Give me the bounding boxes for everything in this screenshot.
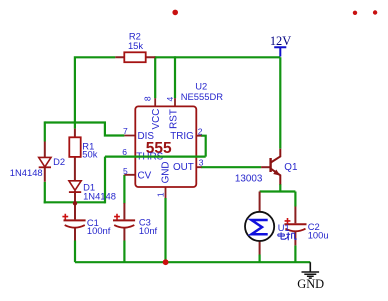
wire 12V to collector <box>279 57 281 148</box>
junction dot pin1/rail <box>163 259 169 265</box>
wire 12V rail <box>155 56 280 58</box>
svg-text:DIS: DIS <box>138 131 155 142</box>
wire bottom ground rail <box>75 261 310 263</box>
svg-text:100u: 100u <box>308 230 329 241</box>
stray dot C <box>373 10 377 14</box>
svg-text:U1: U1 <box>278 222 290 233</box>
svg-text:OUT: OUT <box>173 162 194 173</box>
capacitor C1 <box>62 202 110 240</box>
wire DIS net horizontal <box>45 123 125 136</box>
diode D2 <box>10 142 65 182</box>
wire C2 bottom <box>294 245 296 262</box>
svg-text:D2: D2 <box>53 156 65 167</box>
wire D2 bottom <box>44 182 46 204</box>
wire D2 top <box>44 121 46 141</box>
capacitor C3 <box>113 203 158 241</box>
svg-text:Q1: Q1 <box>284 162 298 173</box>
svg-text:VCC: VCC <box>151 109 162 130</box>
wire C3 bottom <box>123 241 125 263</box>
wire THRS drop <box>104 157 106 204</box>
wire C1 bottom <box>74 241 76 263</box>
diode D1 <box>69 181 116 203</box>
svg-text:3: 3 <box>199 158 204 168</box>
svg-text:8: 8 <box>142 96 152 101</box>
svg-text:15k: 15k <box>128 40 143 51</box>
capacitor C2 <box>284 207 328 246</box>
transistor Q1 <box>235 149 298 185</box>
wire pin4 drop <box>174 56 176 98</box>
power port GND <box>297 262 324 291</box>
resistor R1 <box>69 129 97 181</box>
stray dot B <box>353 11 357 15</box>
wire emitter down <box>279 184 281 192</box>
svg-text:CV: CV <box>138 171 152 182</box>
power port 12V <box>270 34 291 57</box>
svg-text:5: 5 <box>123 166 128 176</box>
svg-text:4: 4 <box>165 96 175 101</box>
svg-text:GND: GND <box>161 161 172 183</box>
wire motor bottom <box>259 255 261 263</box>
svg-text:7: 7 <box>123 126 128 136</box>
svg-text:12V: 12V <box>270 34 291 48</box>
svg-text:10nf: 10nf <box>139 225 158 236</box>
svg-text:NE555DR: NE555DR <box>181 91 223 102</box>
wire emitter tee <box>260 190 296 192</box>
wire THRS-TRIG over chip <box>105 156 206 158</box>
stray dot A <box>172 10 178 16</box>
wire TRIG loop <box>201 136 206 157</box>
IC U2 555 <box>122 81 223 198</box>
svg-text:2: 2 <box>198 126 203 136</box>
wire diode rail <box>44 201 105 203</box>
wire OUT to base <box>201 166 261 168</box>
svg-text:GND: GND <box>297 277 324 291</box>
svg-text:1N4148: 1N4148 <box>83 190 116 201</box>
wire CV to C3 <box>123 175 125 204</box>
wire pin8 drop <box>154 56 156 98</box>
motor chinese label 电机 <box>278 232 296 240</box>
resistor R2 <box>115 31 155 63</box>
wire R2 left to R1 top <box>75 57 115 128</box>
svg-text:1: 1 <box>156 192 166 197</box>
svg-text:1N4148: 1N4148 <box>10 167 43 178</box>
svg-text:RST: RST <box>168 109 179 129</box>
svg-text:100nf: 100nf <box>87 225 111 236</box>
junction dot D1/C1 <box>73 201 77 205</box>
wire pin1 GND drop <box>164 198 166 262</box>
motor U1 <box>245 192 290 255</box>
svg-text:13003: 13003 <box>235 173 263 184</box>
svg-text:TRIG: TRIG <box>170 131 194 142</box>
svg-text:50k: 50k <box>82 149 97 160</box>
wire C2 top <box>294 192 296 207</box>
